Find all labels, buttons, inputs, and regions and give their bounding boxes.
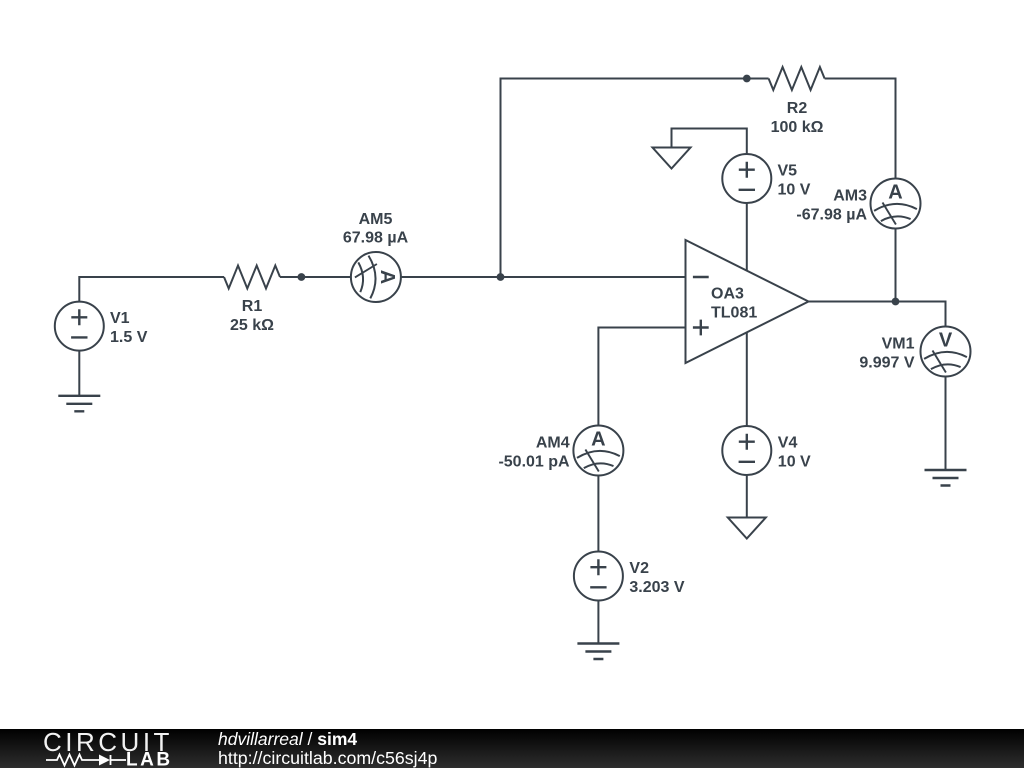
svg-text:V5: V5 [778, 163, 798, 180]
svg-text:1.5 V: 1.5 V [110, 329, 148, 346]
op-amp OA3 plus input pin marker [693, 320, 709, 336]
wire feedback vertical and top run to R2 [501, 79, 769, 278]
svg-text:10 V: 10 V [778, 454, 811, 471]
svg-text:67.98 µA: 67.98 µA [343, 230, 409, 247]
ground triangle near V5 [653, 148, 691, 169]
ammeter AM4 [573, 426, 623, 476]
wire AM4 bottom to V2 top [597, 476, 599, 551]
svg-text:V1: V1 [110, 310, 130, 327]
svg-text:TL081: TL081 [711, 305, 757, 322]
resistor R2 [769, 67, 825, 90]
ground below VM1 [925, 470, 967, 486]
svg-text:10 V: 10 V [778, 182, 811, 199]
svg-text:A: A [888, 182, 902, 204]
voltage source V4 [722, 426, 771, 475]
svg-text:VM1: VM1 [882, 336, 915, 353]
svg-text:LAB: LAB [126, 749, 173, 769]
wire op-amp noninverting input run [598, 328, 685, 426]
wire V5 top to ground triangle [672, 129, 747, 155]
resistor R1 [224, 266, 280, 289]
voltage source V5 [722, 154, 771, 203]
wire AM3 bottom to output node [895, 229, 897, 302]
node junction dot at R2 left [743, 75, 751, 83]
node junction dot feedback tap [497, 273, 505, 281]
wire R1 right terminal to AM5 [280, 276, 351, 278]
op-amp OA3 [686, 240, 809, 363]
voltage source V1 [55, 302, 104, 351]
svg-text:A: A [591, 429, 605, 451]
op-amp OA3 minus input pin marker [693, 276, 709, 278]
ground triangle below V4 [728, 518, 766, 539]
wire V4 top to op-amp bottom edge [746, 333, 748, 427]
svg-text:AM4: AM4 [536, 435, 570, 452]
wire V2 bottom to ground [597, 601, 599, 644]
footer url text [218, 750, 437, 768]
svg-text:A: A [376, 270, 398, 284]
svg-text:V: V [939, 330, 953, 352]
svg-text:V4: V4 [778, 435, 798, 452]
wire V1 top lead to R1 left terminal [79, 277, 224, 301]
node junction dot at R1 output [298, 273, 306, 281]
voltmeter VM1 [921, 327, 971, 377]
svg-text:9.997 V: 9.997 V [859, 355, 914, 372]
logo resistor-diode glyph [46, 754, 126, 765]
wire AM5 to op-amp inverting input [401, 276, 686, 278]
ground below V1 [58, 396, 100, 412]
svg-text:100 kΩ: 100 kΩ [771, 119, 824, 136]
footer title text [218, 731, 357, 749]
ammeter AM5 (horizontal, rotated) [351, 252, 401, 302]
wire V5 bottom to op-amp top edge [746, 203, 748, 271]
svg-text:-50.01 pA: -50.01 pA [498, 454, 570, 471]
svg-text:25 kΩ: 25 kΩ [230, 317, 274, 334]
svg-text:OA3: OA3 [711, 286, 744, 303]
footer bar [0, 729, 1024, 769]
svg-text:AM3: AM3 [833, 188, 867, 205]
svg-text:V2: V2 [629, 560, 649, 577]
ammeter AM3 [871, 179, 921, 229]
svg-text:R2: R2 [787, 100, 808, 117]
svg-text:3.203 V: 3.203 V [629, 579, 684, 596]
svg-text:AM5: AM5 [359, 211, 393, 228]
wire V4 bottom to ground triangle [746, 476, 748, 518]
svg-text:-67.98 µA: -67.98 µA [796, 207, 867, 224]
voltage source V2 [574, 552, 623, 601]
wire VM1 bottom to ground [945, 377, 947, 470]
wire op-amp output to VM1 [809, 302, 946, 327]
node junction dot output [892, 298, 900, 306]
ground below V2 [577, 644, 619, 660]
wire R2 right to AM3 top [825, 79, 896, 179]
svg-text:R1: R1 [242, 298, 263, 315]
wire V1 bottom to ground [78, 351, 80, 396]
